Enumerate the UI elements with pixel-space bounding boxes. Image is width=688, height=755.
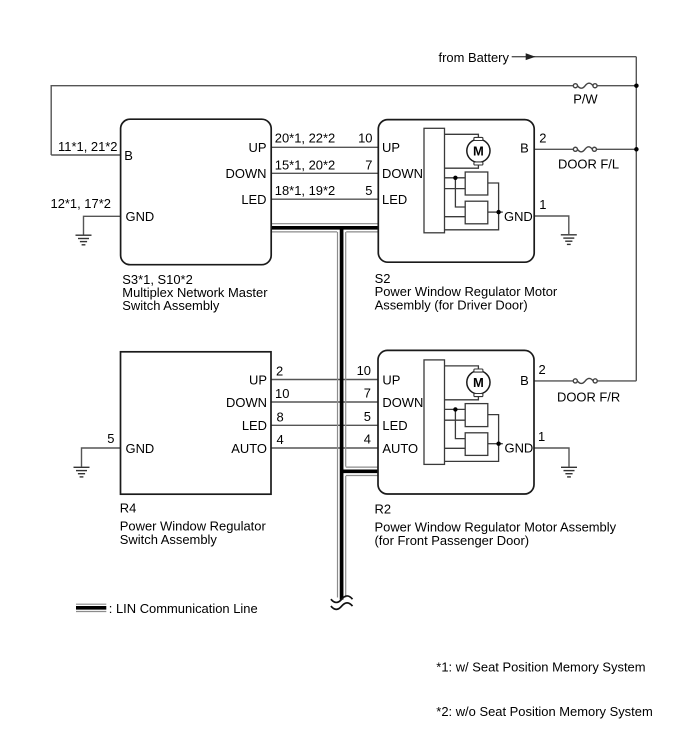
svg-text:R2: R2 [375,502,392,517]
svg-text:M: M [473,144,484,159]
svg-text:UP: UP [249,372,267,387]
node: junction dot bus / DOOR F/L wire [634,147,639,152]
wire: R2 connector to upper switch second [445,419,466,421]
wire: S2 motor bottom return [445,165,479,168]
node: junction dot bus / P-W wire [634,83,639,88]
svg-text:AUTO: AUTO [231,441,267,456]
wire: LIN black core vertical [340,226,344,600]
power window regulator motor assembly R2 box [378,350,534,494]
wire: S2 connector to motor top [445,134,479,137]
wire: DOOR F/L fuse to bus [596,148,636,150]
wire: R2 motor bottom return [445,396,479,399]
wire: R4 GND pin 5 [82,448,121,467]
wire: master switch B pin [51,154,120,156]
svg-text:(for Front Passenger Door): (for Front Passenger Door) [375,533,530,548]
ground: S2 GND [561,235,577,245]
wire: S2 GND pin 1 [534,216,569,234]
relay contact upper inside S2 [465,172,488,195]
svg-text:15*1, 20*2: 15*1, 20*2 [275,157,335,172]
multiplex network master switch assembly S3/S10 box [121,119,272,265]
wire break squiggle at LIN bottom [331,596,353,603]
wire: P/W fuse to bus [597,85,636,87]
svg-text:LED: LED [382,418,407,433]
svg-text:7: 7 [364,386,371,401]
power window regulator motor assembly S2 box [378,120,534,263]
wire: R2 B pin to DOOR F/R fuse [534,380,573,382]
svg-text:Switch Assembly: Switch Assembly [122,298,220,313]
motor M2 inside R2 [467,371,490,394]
svg-text:10: 10 [358,130,372,145]
wire: LIN gray outline horizontal master-S2 [271,223,378,225]
R2 internals [445,366,503,462]
fuse DOOR F/L [573,147,596,152]
svg-text:UP: UP [382,140,400,155]
wire: S2 upper switch to right rail [445,183,499,230]
fuse DOOR F/R [573,378,597,383]
svg-text:LED: LED [382,192,407,207]
svg-text:5: 5 [364,409,371,424]
svg-text:R4: R4 [120,501,137,516]
ground: R2 GND [561,467,577,477]
svg-text:7: 7 [365,157,372,172]
svg-text:GND: GND [504,209,533,224]
wire: R2 connector to motor top [445,366,479,369]
wire: battery feed top horizontal (P/W circuit) [51,86,573,155]
svg-text:DOWN: DOWN [382,166,423,181]
svg-text:5: 5 [365,183,372,198]
svg-text:2: 2 [539,362,546,377]
svg-text:: LIN Communication Line: : LIN Communication Line [109,601,258,616]
ground: R4 GND [74,467,90,477]
node: junction dot R2 internal GND [496,442,500,446]
wire: UP R4 to R2 [271,379,378,381]
svg-text:B: B [124,148,133,163]
wire: UP master to S2 [271,146,378,148]
relay contact upper inside R2 [465,404,488,427]
svg-text:B: B [520,373,529,388]
wire: R2 connector to lower switch [445,447,466,449]
svg-text:GND: GND [126,441,155,456]
S2 internals [445,134,503,230]
svg-text:1: 1 [538,429,545,444]
svg-text:10: 10 [357,363,371,378]
power window regulator switch assembly R4 box [121,352,272,494]
relay contact lower inside R2 [465,433,488,456]
wire: S2 B pin to DOOR F/L fuse [534,148,573,150]
wire: R2 connector to upper switch [445,408,466,410]
svg-text:from Battery: from Battery [439,50,510,65]
svg-text:*1: w/ Seat Position Memory Sy: *1: w/ Seat Position Memory System [436,659,645,674]
svg-text:18*1, 19*2: 18*1, 19*2 [275,183,335,198]
svg-text:B: B [520,140,529,155]
svg-text:Switch Assembly: Switch Assembly [120,532,218,547]
svg-text:DOWN: DOWN [226,166,267,181]
wire: right vertical battery bus [635,57,637,381]
arrow head from Battery [526,53,536,60]
wire: AUTO R4 to R2 [271,447,378,449]
svg-text:GND: GND [505,440,534,455]
svg-text:DOOR F/R: DOOR F/R [557,390,620,405]
svg-text:AUTO: AUTO [382,441,418,456]
relay contact lower inside S2 [465,201,488,224]
svg-text:GND: GND [126,209,155,224]
wire: master switch GND pin [84,216,121,235]
wire: R2 upper switch to right rail [445,415,499,462]
svg-text:20*1, 22*2: 20*1, 22*2 [275,130,335,145]
wire: DOWN R4 to R2 [271,401,378,403]
svg-text:LED: LED [242,418,267,433]
svg-text:UP: UP [249,140,267,155]
svg-text:5: 5 [107,431,114,446]
wire: DOOR F/R fuse to bus [597,380,636,382]
node: junction dot R2 internal branch [453,407,457,411]
wire: S2 connector to lower switch [445,216,466,218]
svg-text:*2: w/o Seat Position Memory S: *2: w/o Seat Position Memory System [436,704,652,719]
wire: LED master to S2 [271,198,378,200]
connector block inside S2 [424,128,445,233]
wire: LED R4 to R2 [271,424,378,426]
connector block inside R2 [424,360,445,465]
svg-text:8: 8 [277,409,284,424]
wire: R2 GND pin 1 [534,448,569,467]
wire: S2 lower switch to GND [488,211,503,213]
svg-text:Assembly (for Driver Door): Assembly (for Driver Door) [375,297,528,312]
wire: LIN gray outline branch to R2 [346,466,378,468]
wire: LIN gray outline vertical [337,232,339,598]
wire: from Battery arrow line [512,56,637,58]
svg-text:1: 1 [539,197,546,212]
svg-text:10: 10 [275,386,289,401]
svg-text:DOWN: DOWN [226,395,267,410]
wire: S2 connector to upper switch [445,177,466,179]
svg-text:LED: LED [241,192,266,207]
svg-text:12*1, 17*2: 12*1, 17*2 [51,196,111,211]
svg-text:DOWN: DOWN [382,395,423,410]
svg-text:2: 2 [276,364,283,379]
node: junction dot S2 internal branch [453,176,457,180]
wire: S2 connector to upper switch second [445,188,466,190]
svg-text:P/W: P/W [573,92,598,107]
ground: master switch GND [76,235,92,245]
wire: S2 branch down to lower switch [455,178,465,207]
svg-text:UP: UP [382,372,400,387]
wire: DOWN master to S2 [271,172,378,174]
wire: R2 lower switch to GND [488,443,503,445]
legend LIN line sample [76,603,106,605]
wire: LIN black core horizontal master-S2 [271,226,378,230]
fuse P/W [573,83,597,88]
svg-text:4: 4 [277,432,284,447]
svg-text:4: 4 [364,432,371,447]
svg-text:11*1, 21*2: 11*1, 21*2 [58,139,117,154]
wire: LIN black core branch to R2 [342,469,378,473]
svg-text:2: 2 [539,130,546,145]
motor M1 inside S2 [467,139,490,162]
wire: R2 branch down to lower switch [455,409,465,438]
svg-text:M: M [473,375,484,390]
node: junction dot S2 internal GND [496,210,500,214]
svg-text:DOOR F/L: DOOR F/L [558,156,619,171]
